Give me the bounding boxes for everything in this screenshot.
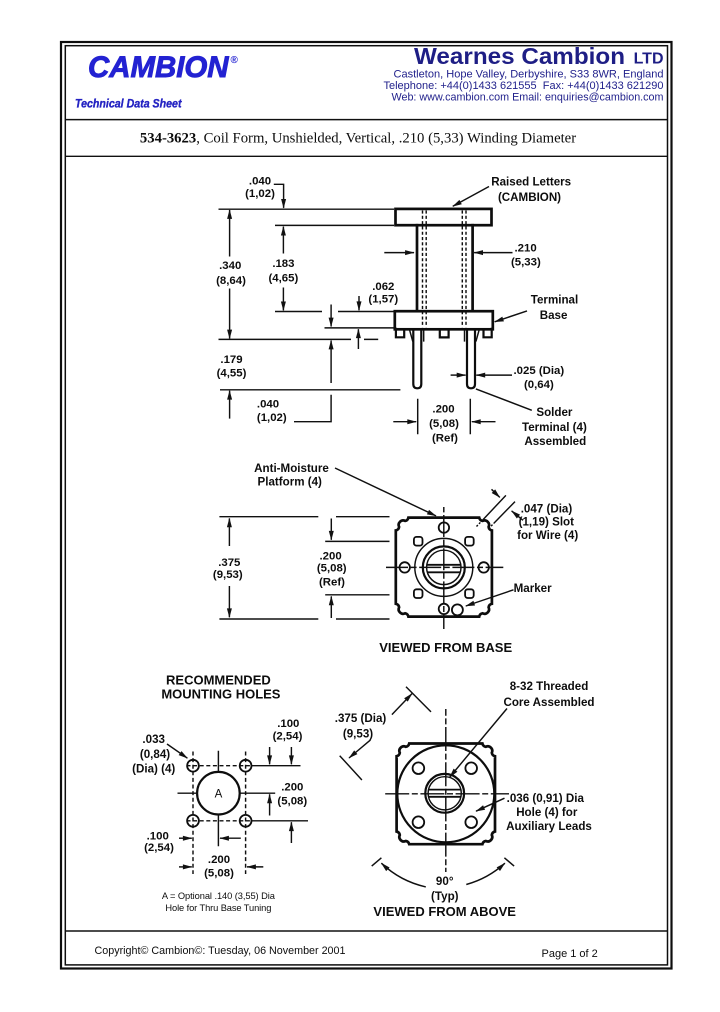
svg-text:Platform (4): Platform (4) bbox=[257, 475, 322, 488]
base view: body outline with corner notches bbox=[396, 518, 492, 617]
svg-text:VIEWED FROM ABOVE: VIEWED FROM ABOVE bbox=[373, 904, 516, 919]
svg-text:(5,33): (5,33) bbox=[511, 257, 541, 269]
svg-text:.062: .062 bbox=[372, 281, 394, 293]
above view: core inner circle bbox=[428, 777, 461, 810]
svg-text:(2,54): (2,54) bbox=[144, 842, 174, 854]
mount: solid ext right rows bbox=[252, 766, 308, 821]
svg-text:.040: .040 bbox=[249, 176, 271, 188]
dim .047 arrows bbox=[492, 489, 500, 497]
svg-text:(5,08): (5,08) bbox=[317, 562, 347, 574]
svg-text:LTD: LTD bbox=[634, 51, 664, 68]
svg-text:Raised Letters: Raised Letters bbox=[491, 175, 571, 188]
mount: dashed column lines bbox=[193, 752, 246, 875]
svg-text:.200: .200 bbox=[281, 782, 303, 794]
svg-text:Core Assembled: Core Assembled bbox=[503, 696, 594, 709]
dim .210 arrows bbox=[384, 252, 414, 254]
leader Anti-Moisture bbox=[335, 468, 436, 516]
mount: center crosshair bbox=[178, 751, 276, 847]
ext line pin bottom bbox=[220, 389, 400, 391]
svg-text:Copyright© Cambion©: Tuesday,: Copyright© Cambion©: Tuesday, 06 Novembe… bbox=[95, 945, 346, 957]
svg-text:(0,64): (0,64) bbox=[524, 379, 554, 391]
svg-text:Terminal (4): Terminal (4) bbox=[522, 421, 587, 434]
svg-text:.183: .183 bbox=[272, 258, 294, 270]
mount: hole SW bbox=[187, 815, 199, 827]
ext line base step bbox=[325, 327, 394, 329]
dim .179 arrow bbox=[229, 391, 231, 419]
svg-text:(CAMBION): (CAMBION) bbox=[498, 191, 561, 204]
dim .200 ref ext lines bbox=[418, 399, 471, 434]
svg-text:Technical Data Sheet: Technical Data Sheet bbox=[75, 96, 182, 110]
svg-text:.040: .040 bbox=[257, 398, 279, 410]
svg-text:8-32 Threaded: 8-32 Threaded bbox=[510, 680, 589, 693]
mount: hole NE bbox=[240, 760, 252, 772]
base view: core inner circle bbox=[427, 550, 461, 584]
base view: wire hole N bbox=[439, 522, 449, 532]
90 deg ray tick left bbox=[372, 858, 382, 866]
90 deg arc right bbox=[466, 863, 505, 884]
dim .340 arrows bbox=[229, 210, 231, 257]
base view: centerline vertical bbox=[443, 507, 445, 629]
svg-text:.200: .200 bbox=[320, 550, 342, 562]
base view: platform SE bbox=[465, 589, 474, 598]
dim .375 arrows bbox=[228, 518, 230, 546]
svg-text:.033: .033 bbox=[142, 733, 165, 746]
ext line flange top bbox=[219, 208, 395, 210]
dim .025 arrows bbox=[451, 374, 466, 376]
svg-text:.025 (Dia): .025 (Dia) bbox=[514, 365, 565, 377]
svg-text:.200: .200 bbox=[432, 403, 454, 415]
base view: marker dot bbox=[452, 604, 463, 615]
dim .100 right arrows bbox=[269, 747, 271, 764]
base view ext line platform top bbox=[325, 540, 389, 542]
90 deg arc left bbox=[381, 863, 425, 887]
base view: wire hole E bbox=[479, 562, 489, 572]
svg-text:90°: 90° bbox=[436, 875, 454, 888]
dim .200 base arrows bbox=[330, 519, 332, 540]
mount: hole SE bbox=[240, 815, 252, 827]
svg-text:(9,53): (9,53) bbox=[343, 728, 373, 741]
svg-text:(8,64): (8,64) bbox=[216, 275, 246, 287]
svg-text:CAMBION: CAMBION bbox=[88, 51, 230, 84]
svg-text:®: ® bbox=[231, 55, 239, 66]
svg-text:(0,84): (0,84) bbox=[140, 748, 170, 761]
svg-text:Marker: Marker bbox=[514, 582, 553, 595]
above view: aux hole NW bbox=[413, 762, 425, 774]
svg-text:Anti-Moisture: Anti-Moisture bbox=[254, 462, 329, 475]
above view: aux hole SW bbox=[413, 816, 425, 828]
leader Marker bbox=[466, 590, 514, 606]
svg-text:(Dia) (4): (Dia) (4) bbox=[132, 762, 175, 775]
svg-text:RECOMMENDED: RECOMMENDED bbox=[166, 673, 271, 688]
svg-text:.100: .100 bbox=[147, 830, 169, 842]
dim .183 arrows bbox=[282, 227, 284, 254]
leader 8-32 bbox=[450, 709, 507, 778]
svg-text:for Wire (4): for Wire (4) bbox=[517, 529, 578, 542]
svg-text:(1,02): (1,02) bbox=[245, 188, 275, 200]
base view: wire hole W bbox=[400, 562, 410, 572]
dim .100 bottom arrows bbox=[179, 837, 192, 839]
leader Terminal Base bbox=[495, 311, 527, 322]
ext line base top bbox=[275, 311, 394, 313]
above view: aux hole NE bbox=[465, 762, 477, 774]
svg-text:.100: .100 bbox=[277, 718, 299, 730]
svg-text:(9,53): (9,53) bbox=[213, 569, 243, 581]
dim .062 arrows bbox=[358, 296, 360, 310]
above view: centerline horizontal bbox=[385, 793, 509, 795]
base view: core outer circle bbox=[423, 546, 465, 588]
svg-text:(1,57): (1,57) bbox=[368, 294, 398, 306]
svg-text:A = Optional .140 (3,55) Dia: A = Optional .140 (3,55) Dia bbox=[162, 891, 276, 901]
svg-text:A: A bbox=[215, 788, 223, 800]
svg-text:.375 (Dia): .375 (Dia) bbox=[335, 712, 387, 725]
svg-text:Castleton, Hope Valley, Derbys: Castleton, Hope Valley, Derbyshire, S33 … bbox=[394, 69, 664, 81]
above view: winding circle bbox=[397, 745, 494, 842]
svg-text:Web: www.cambion.com Email: en: Web: www.cambion.com Email: enquiries@ca… bbox=[392, 92, 664, 104]
dim .040 top leader bbox=[274, 184, 284, 208]
svg-text:Hole (4) for: Hole (4) for bbox=[516, 806, 578, 819]
90 deg ray tick right bbox=[504, 858, 514, 866]
above view: aux hole SE bbox=[465, 816, 477, 828]
svg-text:(4,55): (4,55) bbox=[217, 368, 247, 380]
svg-text:534-3623, Coil Form, Unshielde: 534-3623, Coil Form, Unshielded, Vertica… bbox=[140, 131, 576, 147]
svg-text:.200: .200 bbox=[208, 854, 230, 866]
dim .375 dia tangent ticks bbox=[340, 687, 431, 780]
base view ext line top bbox=[219, 516, 389, 518]
svg-text:Auxiliary Leads: Auxiliary Leads bbox=[506, 820, 592, 833]
svg-text:Hole for Thru Base Tuning: Hole for Thru Base Tuning bbox=[165, 903, 271, 913]
svg-text:(1,02): (1,02) bbox=[257, 412, 287, 424]
above view: core outer circle bbox=[425, 774, 464, 813]
above view: centerline vertical bbox=[445, 709, 447, 872]
svg-text:.036 (0,91) Dia: .036 (0,91) Dia bbox=[507, 792, 585, 805]
dim .375 dia arrows bbox=[392, 694, 412, 715]
side view: left pin chamfer bbox=[410, 330, 424, 342]
svg-text:.340: .340 bbox=[219, 260, 241, 272]
base view ext line bottom bbox=[219, 618, 389, 620]
side view: top flange bbox=[396, 209, 492, 225]
svg-text:(4,65): (4,65) bbox=[269, 273, 299, 285]
svg-text:Assembled: Assembled bbox=[524, 435, 586, 448]
svg-text:Base: Base bbox=[540, 309, 568, 322]
above view: body outline with corner notches bbox=[397, 744, 495, 845]
above view: screwdriver slot bbox=[428, 790, 461, 797]
svg-text:(2,54): (2,54) bbox=[273, 731, 303, 743]
header rule bbox=[66, 119, 667, 121]
svg-text:(Ref): (Ref) bbox=[432, 433, 458, 445]
leader Solder Terminal bbox=[476, 389, 532, 410]
svg-text:(Typ): (Typ) bbox=[431, 890, 459, 903]
ext line base bottom bbox=[219, 338, 379, 340]
svg-text:(Ref): (Ref) bbox=[319, 577, 345, 589]
dim .040 bottom arrows bbox=[330, 305, 332, 327]
side view: right pin chamfer bbox=[465, 330, 480, 342]
svg-text:MOUNTING HOLES: MOUNTING HOLES bbox=[161, 687, 280, 702]
svg-text:Solder: Solder bbox=[536, 406, 573, 419]
dim .040 bottom leader bbox=[294, 395, 331, 422]
base view: slot-for-wire diagonal lines bbox=[482, 495, 515, 523]
svg-text:(5,08): (5,08) bbox=[277, 795, 307, 807]
svg-text:Terminal: Terminal bbox=[531, 294, 578, 307]
side view: base right foot bbox=[484, 329, 492, 338]
ext line flange bottom bbox=[275, 224, 394, 226]
dim .200 right arrows bbox=[290, 747, 292, 764]
svg-text:VIEWED FROM BASE: VIEWED FROM BASE bbox=[379, 640, 512, 655]
dim .200 bottom arrows bbox=[179, 866, 192, 868]
leader .036 bbox=[476, 798, 505, 811]
title rule bbox=[66, 155, 667, 157]
side view: solder pin left bbox=[413, 330, 421, 389]
footer rule bbox=[66, 930, 667, 932]
base view ext line platform bottom bbox=[325, 594, 389, 596]
side view: terminal base bbox=[395, 311, 493, 329]
svg-text:Page 1 of 2: Page 1 of 2 bbox=[542, 948, 598, 960]
svg-text:Telephone: +44(0)1433 621555: Telephone: +44(0)1433 621555 Fax: +44(0)… bbox=[384, 80, 664, 92]
side view: solder pin right bbox=[467, 330, 475, 389]
side view: base middle tab bbox=[440, 330, 449, 338]
base view: centerline horizontal bbox=[386, 566, 503, 568]
side view: base left foot bbox=[396, 329, 404, 338]
svg-text:.179: .179 bbox=[220, 354, 242, 366]
base view: platform NW bbox=[414, 537, 423, 546]
mount: center hole A circle bbox=[197, 772, 240, 815]
mount: hole NW bbox=[187, 760, 199, 772]
svg-text:.375: .375 bbox=[218, 557, 241, 569]
base view: wire hole S bbox=[439, 604, 449, 614]
dim .200 ref arrows bbox=[393, 421, 416, 423]
svg-text:Wearnes Cambion: Wearnes Cambion bbox=[414, 43, 625, 69]
svg-text:(1,19) Slot: (1,19) Slot bbox=[519, 515, 575, 528]
base view: platform SW bbox=[414, 589, 423, 598]
base view: platform NE bbox=[465, 537, 474, 546]
mount: dashed row lines bbox=[187, 766, 253, 821]
svg-text:.210: .210 bbox=[515, 243, 537, 255]
side view: winding cylinder walls bbox=[417, 225, 473, 311]
base view: screwdriver slot bbox=[427, 565, 461, 573]
base view: outer rim circle bbox=[415, 538, 473, 596]
leader .033 bbox=[167, 744, 187, 758]
svg-text:.047 (Dia): .047 (Dia) bbox=[521, 503, 573, 516]
leader Raised Letters bbox=[453, 187, 489, 207]
svg-text:(5,08): (5,08) bbox=[204, 867, 234, 879]
svg-text:(5,08): (5,08) bbox=[429, 418, 459, 430]
side view: bore dashed lines bbox=[423, 211, 467, 328]
